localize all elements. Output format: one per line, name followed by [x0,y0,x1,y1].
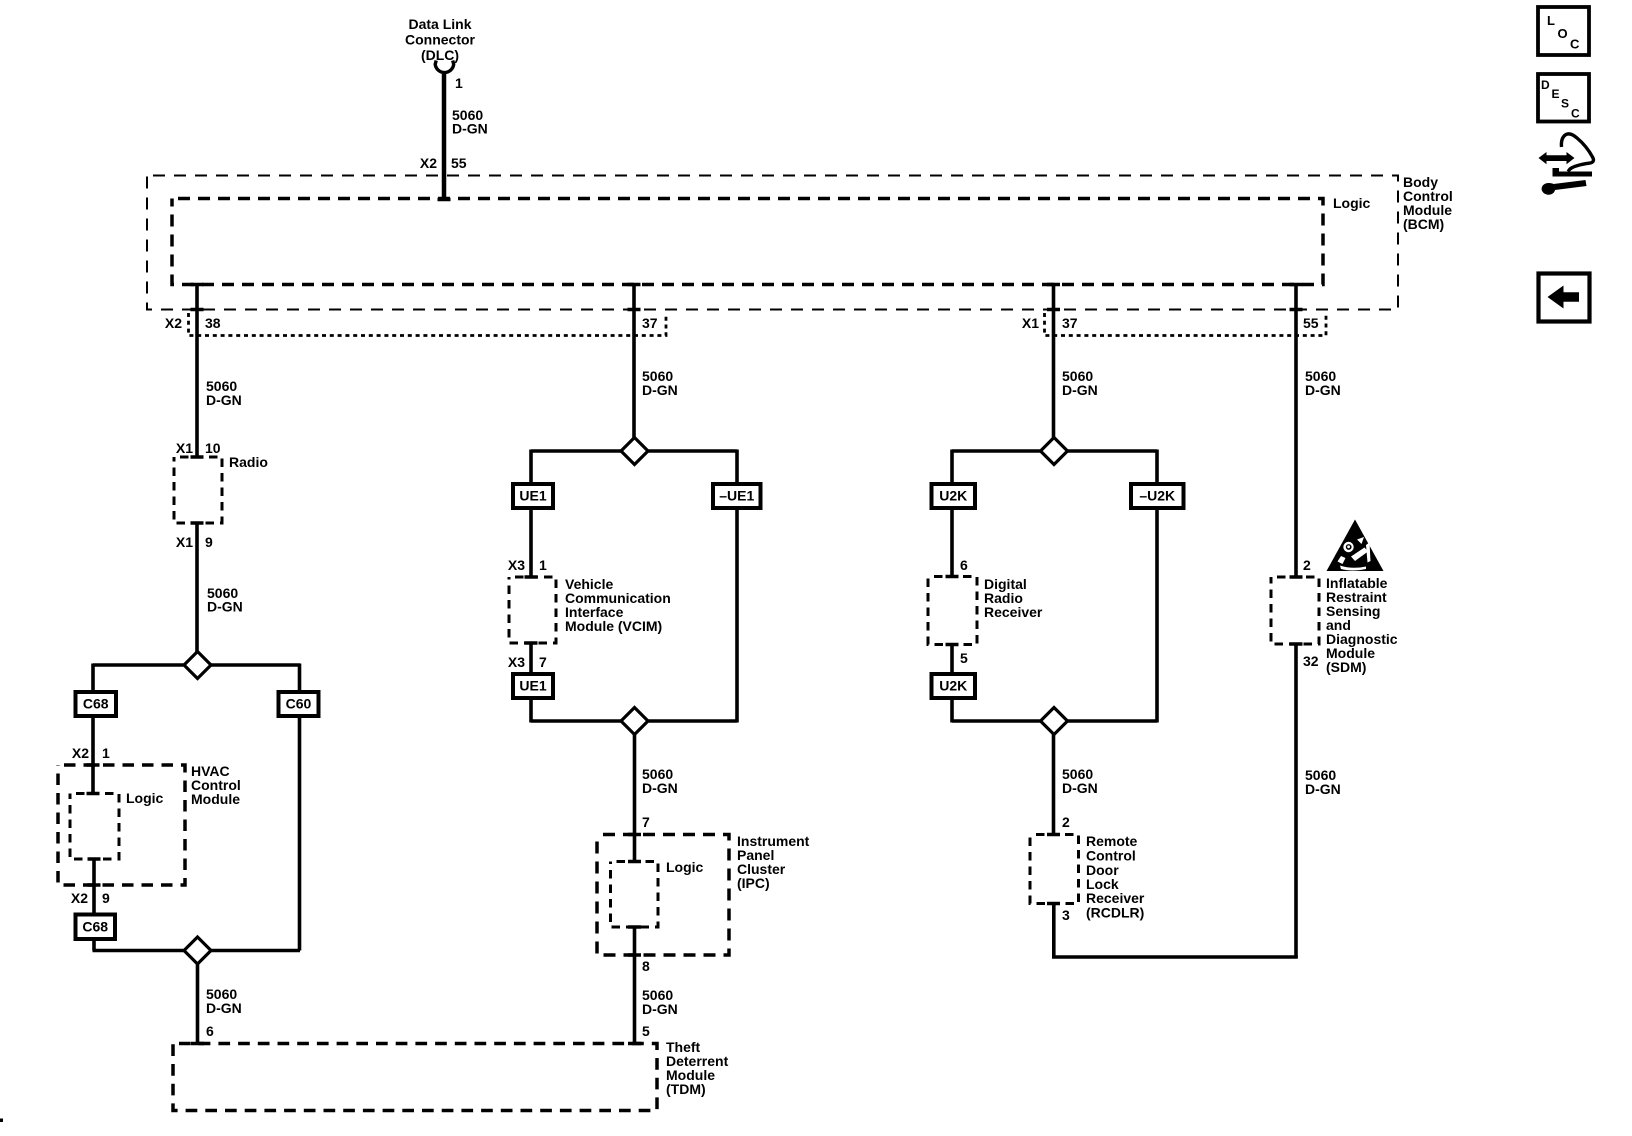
wire BCM X2-38 to Radio, circuit 5060 D-GN [195,285,199,459]
wire terminal dash [191,455,204,459]
wire terminal dash [1047,833,1060,837]
splice diamond S5 [1041,438,1068,465]
svg-text:6: 6 [960,557,968,573]
svg-text:Radio: Radio [229,454,268,470]
wire BCM X1-55 to SDM pin 2, circuit 5060 D-GN [1294,285,1298,578]
wire terminal dash [87,763,100,767]
svg-text:D-GN: D-GN [1305,382,1341,398]
svg-text:7: 7 [539,654,547,670]
svg-text:Receiver: Receiver [984,604,1043,620]
wire splice bus VCIM bottom [531,719,737,723]
svg-text:2: 2 [1062,814,1070,830]
svg-text:C: C [1571,107,1580,121]
svg-text:9: 9 [205,534,213,550]
wire terminal dash [946,575,959,579]
wire terminal dash [1290,575,1303,579]
svg-text:D-GN: D-GN [642,382,678,398]
svg-text:–U2K: –U2K [1139,488,1175,504]
wire -UE1 to splice bus [735,508,739,723]
connector DLC symbol [435,61,454,73]
svg-text:6: 6 [206,1023,214,1039]
svg-text:(IPC): (IPC) [737,875,770,891]
svg-text:X2: X2 [165,315,182,331]
in-line connector U2K (lower) [932,674,976,698]
svg-text:(SDM): (SDM) [1326,659,1366,675]
module BCM internal Logic box [172,199,1323,285]
svg-text:(BCM): (BCM) [1403,216,1444,232]
wire UE1 to splice bus [529,698,533,723]
svg-text:D-GN: D-GN [1305,781,1341,797]
svg-text:D-GN: D-GN [1062,382,1098,398]
icon LOC button [1538,7,1589,55]
svg-text:Data Link: Data Link [408,16,471,32]
svg-text:5: 5 [960,650,968,666]
svg-text:1: 1 [455,75,463,91]
wire C68 to HVAC pin X2-1, circuit 5060 D-GN [91,716,95,794]
svg-text:(TDM): (TDM) [666,1081,706,1097]
svg-text:55: 55 [1303,315,1319,331]
wire terminal dash [628,1042,641,1046]
svg-text:D-GN: D-GN [1062,780,1098,796]
svg-text:X1: X1 [176,534,193,550]
splice diamond S6 [1041,708,1068,735]
svg-text:L: L [1547,13,1555,28]
icon back arrow button [1539,274,1590,322]
wire drop to -UE1 [735,450,739,486]
svg-text:C68: C68 [83,696,109,712]
wire splice bus VCIM top [531,449,737,453]
svg-text:U2K: U2K [939,488,967,504]
wire splice bus to C68 and C60 [93,663,300,667]
svg-text:D: D [1541,78,1550,92]
svg-text:X2: X2 [420,155,437,171]
wire terminal dash [191,308,204,312]
splice diamond S3 [621,438,648,465]
wire terminal dash [628,308,641,312]
icon connector-view (arrows and hook) [1539,152,1575,164]
svg-text:X1: X1 [176,440,193,456]
wire U2K to DRR pin 6 [950,508,954,578]
wire BCM X1-37 to splice, circuit 5060 D-GN [1052,285,1056,440]
stray mark bottom left edge [0,1119,3,1123]
svg-text:10: 10 [205,440,221,456]
svg-text:Module (VCIM): Module (VCIM) [565,618,662,634]
module Digital Radio Receiver box [928,577,977,645]
module HVAC Control Module outer box [58,765,185,885]
wire drop to UE1 [529,450,533,486]
svg-text:X2: X2 [71,890,88,906]
svg-text:3: 3 [1062,907,1070,923]
splice diamond S2 [184,937,211,964]
wire terminal dash [1047,308,1060,312]
svg-text:Connector: Connector [405,32,476,48]
svg-text:1: 1 [102,745,110,761]
svg-text:D-GN: D-GN [207,599,243,615]
wire drop to C60 [298,664,302,694]
svg-text:UE1: UE1 [519,488,546,504]
wire UE1 to VCIM pin X3-1 [529,508,533,578]
wire drop to U2K [950,450,954,486]
in-line connector UE1 [513,484,553,508]
svg-text:37: 37 [1062,315,1078,331]
wire terminal dash [628,283,641,287]
module RCDLR box [1030,835,1079,904]
svg-text:D-GN: D-GN [206,1000,242,1016]
wire HVAC Logic to X2-9 C68 [92,859,96,915]
wire terminal dash [628,953,641,957]
wire Radio pin 9 to splice, circuit 5060 D-GN [195,523,199,653]
svg-text:7: 7 [642,814,650,830]
wire terminal dash [946,643,959,647]
wire splice bus lower [93,949,301,953]
wire terminal dash [1047,283,1060,287]
in-line connector UE1 (lower) [513,674,553,698]
in-line connector C60 [279,692,319,716]
connector bracket X2 of BCM (dotted) [189,313,667,336]
wire terminal dash [628,833,641,837]
svg-text:S: S [1561,97,1569,111]
wire splice to TDM pin 6, circuit 5060 D-GN [196,964,200,1044]
svg-text:O: O [1558,26,1568,41]
svg-text:(RCDLR): (RCDLR) [1086,905,1144,921]
terminal dash DLC wire at Logic box [438,198,451,202]
svg-text:X3: X3 [508,654,525,670]
svg-text:37: 37 [642,315,658,331]
wire terminal dash [191,283,204,287]
wire drop to C68 [91,664,95,694]
svg-text:E: E [1552,87,1560,101]
module IPC outer box [597,835,729,956]
module IPC internal Logic box [611,862,659,928]
wire terminal dash [628,860,641,864]
wire terminal dash [1290,283,1303,287]
module SDM box [1271,577,1319,644]
svg-text:D-GN: D-GN [452,121,488,137]
svg-text:X2: X2 [72,745,89,761]
svg-text:1: 1 [539,557,547,573]
svg-text:C: C [1570,37,1580,52]
wire terminal dash [1290,308,1303,312]
wire C68 to splice bus [92,939,96,951]
wire splice bus DRR top [952,449,1157,453]
svg-text:D-GN: D-GN [642,780,678,796]
wire terminal dash [87,792,100,796]
wire DLC pin 1 to BCM, circuit 5060 D-GN [442,74,447,201]
wire RCDLR pin 3 to SDM circuit, L-shape [1054,904,1298,958]
wire C60 to splice bus [298,716,302,951]
wire SDM pin 32 to RCDLR, circuit 5060 D-GN [1294,644,1298,958]
svg-text:D-GN: D-GN [206,392,242,408]
splice diamond S1 [184,652,211,679]
wire IPC pin 8 to TDM pin 5, circuit 5060 D-GN [633,927,637,1044]
wire terminal dash [88,883,101,887]
wire drop to -U2K [1155,450,1159,486]
wire terminal dash [628,925,641,929]
wire terminal dash [191,521,204,525]
wire splice to RCDLR pin 2, circuit 5060 D-GN [1052,734,1056,835]
svg-text:9: 9 [102,890,110,906]
wire terminal dash [525,575,538,579]
connector bracket X1 of BCM (dotted) [1045,313,1327,336]
svg-text:UE1: UE1 [519,678,546,694]
wire terminal dash [191,1042,204,1046]
svg-text:X3: X3 [508,557,525,573]
svg-text:X1: X1 [1022,315,1039,331]
svg-text:U2K: U2K [939,678,967,694]
svg-text:D-GN: D-GN [642,1001,678,1017]
svg-text:Logic: Logic [666,859,704,875]
module Theft Deterrent Module box [173,1044,657,1111]
wire terminal dash [1047,902,1060,906]
svg-text:Logic: Logic [126,790,164,806]
wire splice to IPC pin 7, circuit 5060 D-GN [633,734,637,862]
wire splice bus DRR bottom [952,719,1157,723]
svg-text:38: 38 [205,315,221,331]
svg-text:8: 8 [642,958,650,974]
svg-text:Module: Module [191,791,240,807]
wire -U2K to splice bus [1155,508,1159,723]
wire terminal dash [1290,642,1303,646]
svg-text:–UE1: –UE1 [719,488,754,504]
svg-text:2: 2 [1303,557,1311,573]
in-line connector C68 [76,692,117,716]
in-line connector C68 (lower) [76,915,116,940]
svg-text:55: 55 [451,155,467,171]
airbag warning triangle symbol [1327,520,1384,572]
wire terminal dash [88,857,101,861]
module Radio box [174,457,222,523]
in-line connector -UE1 [713,484,761,508]
svg-text:5: 5 [642,1023,650,1039]
in-line connector U2K [932,484,976,508]
splice diamond S4 [621,708,648,735]
svg-text:Logic: Logic [1333,195,1371,211]
svg-text:32: 32 [1303,653,1319,669]
wire VCIM pin X3-7 to UE1 [529,643,533,675]
wire DRR pin 5 to U2K [950,645,954,676]
module HVAC internal Logic box [70,794,119,860]
svg-text:C60: C60 [286,696,312,712]
wire U2K to splice bus [950,698,954,723]
icon DESC button [1538,74,1589,122]
module BCM outer box [147,176,1398,310]
svg-text:C68: C68 [82,919,108,935]
wire BCM X2-37 to splice, circuit 5060 D-GN [632,285,636,440]
module VCIM box [509,577,556,643]
in-line connector -U2K [1131,484,1184,508]
wire terminal dash [525,641,538,645]
